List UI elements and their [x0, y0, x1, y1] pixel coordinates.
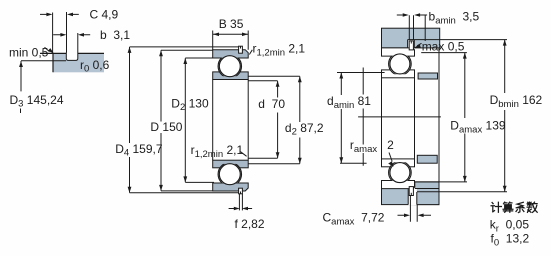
svg-text:b 3,1: b 3,1 [100, 28, 130, 42]
svg-text:max 0,5: max 0,5 [422, 40, 465, 54]
svg-text:f 2,82: f 2,82 [235, 217, 265, 231]
svg-text:D 150: D 150 [150, 120, 182, 134]
svg-text:d 70: d 70 [258, 97, 285, 111]
svg-text:C 4,9: C 4,9 [90, 8, 119, 22]
svg-text:B 35: B 35 [219, 17, 244, 31]
svg-text:min 0,5: min 0,5 [9, 46, 49, 60]
